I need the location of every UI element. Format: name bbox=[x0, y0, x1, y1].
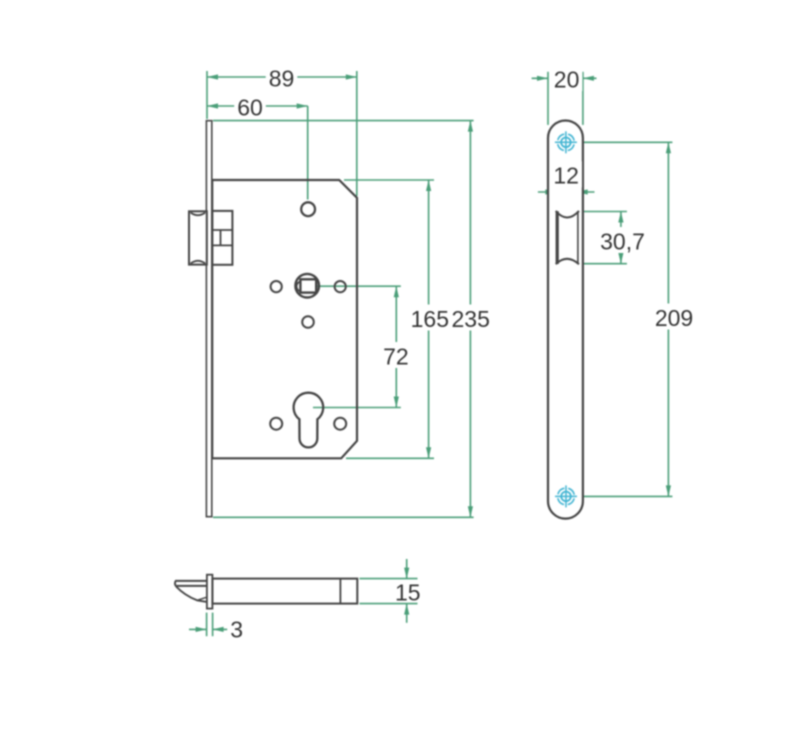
svg-text:209: 209 bbox=[655, 305, 693, 331]
svg-text:72: 72 bbox=[383, 343, 409, 369]
svg-text:3: 3 bbox=[230, 616, 243, 642]
svg-text:15: 15 bbox=[395, 580, 421, 606]
svg-text:235: 235 bbox=[452, 306, 490, 332]
svg-text:165: 165 bbox=[411, 306, 449, 332]
svg-text:89: 89 bbox=[269, 65, 295, 91]
svg-text:20: 20 bbox=[554, 66, 580, 92]
svg-text:30,7: 30,7 bbox=[600, 228, 645, 254]
svg-text:60: 60 bbox=[237, 94, 263, 120]
svg-text:12: 12 bbox=[553, 163, 579, 189]
